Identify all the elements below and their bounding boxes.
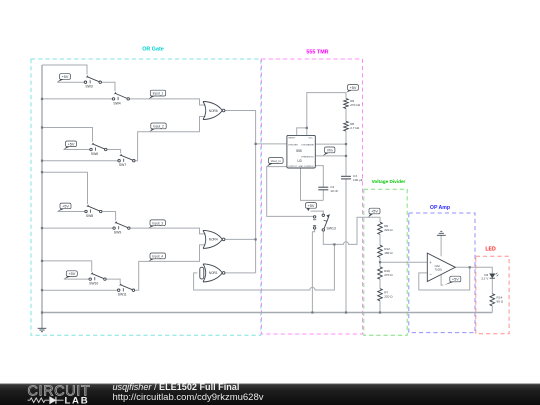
svg-text:TL081: TL081	[435, 267, 443, 271]
wire +5V to SW10	[64, 278, 89, 280]
wire op-amp output to LED	[455, 267, 492, 273]
junction divider net	[333, 243, 335, 245]
svg-text:SW8: SW8	[86, 214, 93, 218]
switch SW9	[113, 221, 130, 234]
wire pair3 top rail	[42, 172, 88, 204]
svg-text:DISCHARGE: DISCHARGE	[302, 144, 315, 147]
wire discharge	[315, 143, 346, 145]
svg-text:U3: U3	[297, 159, 301, 163]
svg-text:270 kΩ: 270 kΩ	[350, 103, 361, 107]
wire 555 reset vcc tee	[297, 93, 346, 136]
wire pair1 top rail	[42, 65, 87, 75]
wire SW8 to SW9	[102, 212, 116, 221]
OR Gate section box	[31, 59, 261, 335]
svg-text:+5V: +5V	[62, 75, 69, 79]
+5V flag 555 top	[346, 85, 358, 93]
resistor R10 270 Ohm	[378, 267, 394, 279]
svg-text:+5V: +5V	[62, 204, 69, 208]
switch SW7	[118, 154, 135, 167]
wire ground bus	[41, 65, 43, 328]
wire bus to SW7	[42, 160, 118, 162]
op-amp gate NOR6	[203, 102, 225, 120]
wire SW4 to NOR6 input 1	[129, 99, 205, 105]
Voltage Divider section box	[364, 189, 407, 335]
switch SW11	[118, 283, 135, 296]
svg-text:555: 555	[296, 149, 302, 153]
junction op-amp output	[469, 266, 471, 268]
svg-text:TRIGGER: TRIGGER	[288, 145, 298, 147]
+5V flag pair1	[57, 74, 71, 83]
capacitor C3 100 uF	[341, 174, 363, 182]
junction bus-SW9	[41, 227, 43, 229]
gate NOR4	[203, 230, 225, 248]
svg-text:Vfm: Vfm	[327, 148, 333, 152]
junction bus-rail2	[41, 126, 43, 128]
svg-text:10 nF: 10 nF	[330, 189, 338, 193]
svg-text:+5V: +5V	[371, 210, 378, 214]
flag Input_1	[149, 90, 166, 99]
svg-text:Input_3: Input_3	[152, 221, 163, 225]
svg-text:100 µF: 100 µF	[353, 178, 363, 182]
wire divider tap to op-amp	[380, 261, 427, 263]
wire C3 down to bottom rail	[345, 179, 347, 313]
flag Input_4	[149, 253, 166, 261]
switch SW8	[85, 205, 102, 218]
flag Input_2	[150, 123, 167, 132]
junction bus-rail3	[41, 171, 43, 173]
wire SW13 throw C to divider top	[323, 217, 380, 244]
wire SW3 to SW4	[101, 82, 115, 91]
wire bus to SW9	[42, 227, 113, 229]
svg-text:VCC: VCC	[309, 138, 314, 140]
svg-text:OR Gate: OR Gate	[142, 47, 164, 53]
555 timer U3	[287, 135, 315, 168]
wire pair4 top rail	[42, 261, 92, 272]
wire NOR4 output	[225, 238, 256, 240]
svg-text:usqjfisher / ELE1502 Full Fina: usqjfisher / ELE1502 Full Final	[113, 382, 240, 392]
flag Vfm	[323, 147, 335, 156]
junction trigger	[255, 143, 257, 145]
svg-text:3.2 V: 3.2 V	[481, 277, 489, 281]
junction threshold	[345, 155, 347, 157]
wire bottom rail	[42, 312, 492, 314]
junction bus-SW7	[41, 160, 43, 162]
svg-text:RESET: RESET	[288, 138, 296, 140]
wire 555 output to SW13	[267, 167, 314, 217]
resistor R7 220 Ohm	[378, 289, 394, 301]
svg-text:NOR6: NOR6	[209, 109, 218, 113]
wire 555 control to C4	[315, 166, 323, 201]
wire +5V to SW6	[64, 149, 90, 151]
svg-text:SW13: SW13	[327, 227, 336, 231]
svg-text:SW4: SW4	[113, 101, 120, 105]
resistor R6 220 Ohm	[378, 222, 394, 234]
switch SW6	[90, 143, 107, 156]
capacitor C4 10 nF	[318, 185, 338, 193]
svg-text:Input_2: Input_2	[153, 124, 164, 128]
svg-text:180 Ω: 180 Ω	[384, 251, 393, 255]
svg-text:+5V: +5V	[308, 204, 315, 208]
wire bus to SW4	[42, 98, 112, 100]
svg-text:CONTROL: CONTROL	[304, 166, 315, 168]
wire SW13 throw D down	[312, 229, 314, 312]
gate NOR1	[203, 264, 225, 282]
CircuitLab logo resistor-diode glyph	[28, 398, 64, 403]
svg-text:+5V: +5V	[68, 272, 75, 276]
wire SW11 to NOR4 input 2	[134, 245, 205, 290]
svg-text:LED: LED	[485, 246, 496, 252]
resistor R9 270 kOhm	[344, 99, 361, 109]
svg-text:+5V: +5V	[452, 278, 459, 282]
wire divider chain	[379, 234, 381, 312]
wire +5V flag to SW13 common	[311, 211, 324, 214]
wire NOR1 input from net	[194, 244, 335, 290]
+5V flag pair2	[64, 141, 77, 150]
svg-text:Vout_in: Vout_in	[271, 159, 281, 163]
svg-text:SW3: SW3	[85, 85, 92, 89]
+5V flag pair3	[58, 203, 72, 211]
wire +5V to SW8	[58, 211, 85, 213]
resistor R14 90 Ohm	[490, 294, 504, 306]
wire threshold	[315, 155, 346, 157]
junction bus-bottom	[41, 311, 43, 313]
+5V flag op-amp	[444, 276, 461, 285]
svg-text:OUTPUT: OUTPUT	[288, 166, 297, 168]
wire R9 chain	[345, 93, 347, 177]
wire 555 gnd	[301, 168, 324, 200]
wire op-amp feedback	[419, 267, 470, 290]
wire LED to R14	[491, 278, 493, 293]
svg-text:NOR1: NOR1	[209, 271, 218, 275]
svg-text:http://circuitlab.com/cdy9rkzm: http://circuitlab.com/cdy9rkzmu628v	[113, 392, 264, 403]
resistor R12 180 Ohm	[378, 245, 394, 257]
flag Input_3	[149, 220, 166, 228]
LED D3 3.2V	[481, 273, 498, 281]
svg-text:90 Ω: 90 Ω	[497, 300, 504, 304]
junction SW13 bottom	[311, 311, 313, 313]
+5V flag divider	[368, 208, 380, 217]
junction discharge	[345, 143, 347, 145]
op-amp U1 OA2 TL081	[427, 253, 455, 281]
svg-text:LAB: LAB	[65, 396, 90, 405]
wire SW10 to SW11	[106, 279, 120, 283]
svg-text:555 TMR: 555 TMR	[306, 50, 328, 56]
wire pair2 top rail	[42, 128, 93, 142]
svg-text:+5V: +5V	[68, 142, 75, 146]
LED section box	[476, 256, 509, 333]
junction reset-vcc	[306, 127, 308, 129]
switch SW13	[313, 214, 336, 231]
svg-text:Input_1: Input_1	[153, 92, 164, 96]
wire NOR1 output	[225, 272, 256, 274]
svg-text:Voltage Divider: Voltage Divider	[372, 179, 406, 184]
svg-text:THRESHOLD: THRESHOLD	[301, 156, 314, 158]
junction bus-rail4	[41, 260, 43, 262]
switch SW10	[89, 272, 106, 285]
junction bus-SW11	[41, 289, 43, 291]
svg-text:SW9: SW9	[114, 231, 121, 235]
resistor R8 2.7 kOhm	[344, 121, 360, 131]
junction bus-SW4	[41, 98, 43, 100]
svg-text:OP Amp: OP Amp	[430, 205, 450, 211]
wire SW6 to SW7	[107, 150, 121, 154]
wire SW7 to NOR6 input 2	[135, 117, 206, 161]
svg-text:OA2: OA2	[435, 264, 441, 268]
junction C3 bottom	[345, 311, 347, 313]
NOR1 tied-input bar	[200, 267, 204, 279]
ground symbol main	[38, 328, 47, 331]
wire op-amp Vplus stem	[440, 235, 442, 256]
wire NOR outputs vertical	[225, 111, 256, 273]
ground symbol above op-amp	[437, 231, 446, 235]
svg-text:270 Ω: 270 Ω	[384, 273, 393, 277]
OP Amp section box	[409, 213, 475, 333]
svg-text:220 Ω: 220 Ω	[384, 228, 393, 232]
+5V flag SW13	[306, 203, 317, 212]
wire trigger	[256, 143, 287, 145]
junction NOR4 output	[255, 238, 257, 240]
switch SW3	[84, 75, 101, 88]
555 TMR section box	[262, 59, 363, 334]
switch SW4	[112, 92, 129, 105]
svg-text:SW6: SW6	[91, 152, 98, 156]
svg-text:+5V: +5V	[350, 86, 357, 90]
wire bus to SW11	[42, 289, 117, 291]
svg-text:2.7 kΩ: 2.7 kΩ	[350, 126, 360, 130]
wire SW9 to NOR4 input 1	[129, 228, 205, 234]
svg-text:SW7: SW7	[119, 163, 126, 167]
wire R14 to bottom rail	[491, 306, 493, 313]
flag Vout_in	[267, 158, 283, 167]
svg-text:SW11: SW11	[118, 293, 127, 297]
junction R7 bottom	[379, 311, 381, 313]
junction divider tap	[379, 261, 381, 263]
+5V flag pair4	[64, 271, 78, 279]
footer bar	[0, 384, 540, 405]
svg-text:SW10: SW10	[89, 282, 98, 286]
svg-text:Input_4: Input_4	[152, 254, 163, 258]
wire +5V to SW3	[57, 81, 84, 83]
svg-text:220 Ω: 220 Ω	[384, 295, 393, 299]
svg-text:NOR4: NOR4	[209, 238, 218, 242]
wire op-amp Vminus stub	[441, 275, 443, 286]
